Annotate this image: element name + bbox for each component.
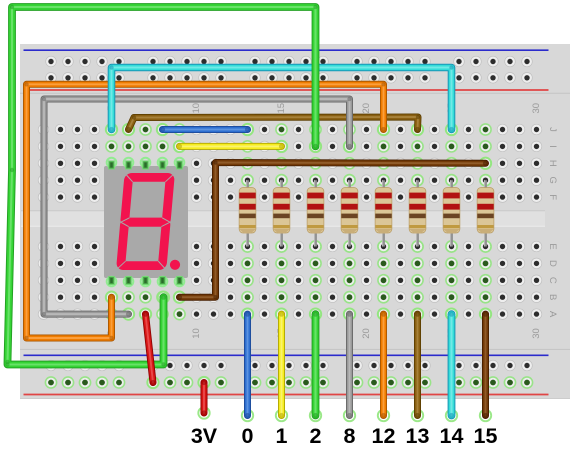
svg-text:2: 2: [310, 424, 322, 448]
svg-text:C: C: [547, 277, 558, 284]
svg-text:10: 10: [191, 103, 202, 114]
svg-text:30: 30: [531, 328, 542, 339]
svg-text:13: 13: [406, 424, 430, 448]
svg-text:12: 12: [372, 424, 396, 448]
svg-text:0: 0: [242, 424, 254, 448]
svg-text:E: E: [547, 243, 558, 249]
svg-text:G: G: [547, 177, 558, 184]
svg-text:8: 8: [344, 424, 356, 448]
svg-text:14: 14: [440, 424, 464, 448]
svg-text:B: B: [547, 294, 558, 300]
svg-text:15: 15: [474, 424, 498, 448]
svg-text:20: 20: [361, 103, 372, 114]
svg-text:F: F: [547, 194, 558, 200]
svg-text:1: 1: [276, 424, 288, 448]
svg-text:15: 15: [276, 103, 287, 114]
svg-text:30: 30: [531, 103, 542, 114]
svg-text:A: A: [547, 311, 558, 318]
svg-text:20: 20: [361, 328, 372, 339]
svg-text:3V: 3V: [191, 424, 218, 448]
svg-text:I: I: [547, 145, 558, 148]
svg-text:J: J: [547, 127, 558, 132]
svg-text:H: H: [547, 160, 558, 167]
svg-text:D: D: [547, 260, 558, 267]
svg-text:10: 10: [191, 328, 202, 339]
